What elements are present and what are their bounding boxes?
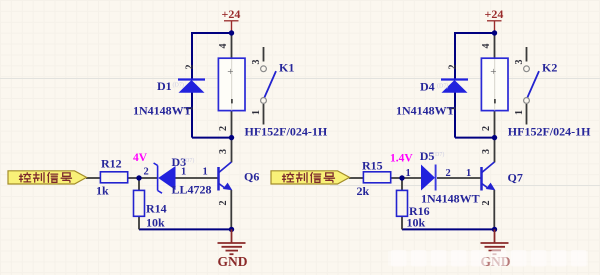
svg-text:1: 1	[181, 167, 186, 178]
svg-text:3: 3	[514, 60, 525, 65]
svg-text:1.4V: 1.4V	[390, 153, 413, 165]
svg-text:2: 2	[448, 65, 459, 70]
svg-text:2: 2	[185, 65, 196, 70]
svg-text:GND: GND	[218, 254, 248, 269]
svg-text:2: 2	[218, 201, 229, 206]
svg-text:4: 4	[481, 44, 492, 49]
svg-text:(D7): (D7)	[173, 82, 184, 89]
svg-text:3: 3	[251, 60, 262, 65]
svg-text:1: 1	[514, 110, 525, 115]
svg-text:2: 2	[481, 126, 492, 131]
svg-text:2: 2	[144, 167, 149, 178]
svg-text:+: +	[227, 66, 233, 78]
svg-text:1: 1	[251, 110, 262, 115]
svg-text:2k: 2k	[357, 184, 370, 198]
svg-text:4: 4	[218, 44, 229, 49]
svg-text:HF152F/024-1H: HF152F/024-1H	[508, 124, 591, 138]
svg-text:LL4728: LL4728	[172, 183, 212, 197]
svg-text:(D7): (D7)	[183, 157, 194, 164]
svg-text:1k: 1k	[96, 184, 109, 198]
svg-text:3: 3	[481, 149, 492, 154]
svg-text:1N4148WT: 1N4148WT	[421, 192, 480, 206]
svg-text:+: +	[490, 66, 496, 78]
svg-text:1N4148WT: 1N4148WT	[133, 104, 192, 118]
svg-text:K1: K1	[279, 61, 294, 75]
svg-text:Q6: Q6	[244, 170, 259, 184]
svg-text:R14: R14	[146, 202, 167, 216]
svg-text:R12: R12	[101, 157, 122, 171]
svg-text:R15: R15	[362, 159, 383, 173]
svg-text:D1: D1	[157, 79, 172, 93]
svg-text:1: 1	[406, 168, 411, 179]
svg-text:2: 2	[481, 201, 492, 206]
svg-text:4V: 4V	[133, 152, 148, 164]
svg-text:3: 3	[218, 149, 229, 154]
svg-text:K2: K2	[542, 61, 557, 75]
svg-text:1: 1	[466, 168, 471, 179]
svg-text:D4: D4	[420, 80, 435, 94]
svg-text:(D7): (D7)	[433, 151, 444, 158]
svg-text:+24: +24	[485, 7, 504, 21]
svg-text:Q7: Q7	[508, 171, 523, 185]
svg-text:10k: 10k	[146, 216, 165, 230]
svg-text:2: 2	[446, 168, 451, 179]
svg-text:2: 2	[218, 126, 229, 131]
svg-text:HF152F/024-1H: HF152F/024-1H	[245, 124, 328, 138]
svg-text:(D7): (D7)	[437, 83, 448, 90]
svg-text:10k: 10k	[407, 216, 426, 230]
svg-text:+24: +24	[222, 7, 241, 21]
svg-text:1N4148WT: 1N4148WT	[396, 104, 455, 118]
svg-text:1: 1	[203, 167, 208, 178]
